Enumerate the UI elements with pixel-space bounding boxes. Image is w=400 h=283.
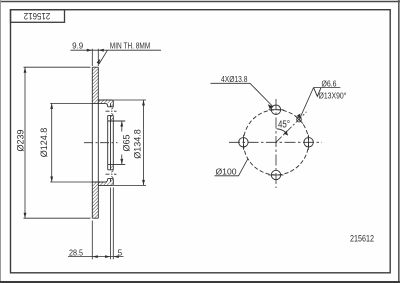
svg-text:Ø6.6: Ø6.6: [322, 80, 337, 89]
svg-text:Ø239: Ø239: [16, 129, 26, 151]
svg-text:28.5: 28.5: [69, 249, 83, 258]
svg-text:Ø134.8: Ø134.8: [133, 129, 143, 159]
svg-text:215612: 215612: [350, 233, 374, 244]
svg-text:9.9: 9.9: [72, 42, 84, 51]
svg-text:MIN TH. 8MM: MIN TH. 8MM: [110, 42, 151, 51]
svg-text:5: 5: [118, 249, 123, 258]
svg-text:45°: 45°: [278, 119, 290, 130]
svg-text:215612: 215612: [24, 11, 51, 21]
svg-text:Ø65: Ø65: [122, 134, 132, 151]
svg-text:Ø100: Ø100: [216, 168, 238, 177]
svg-text:Ø124.8: Ø124.8: [39, 128, 49, 158]
svg-text:Ø13X90°: Ø13X90°: [319, 91, 347, 100]
svg-text:4XØ13.8: 4XØ13.8: [221, 75, 248, 84]
